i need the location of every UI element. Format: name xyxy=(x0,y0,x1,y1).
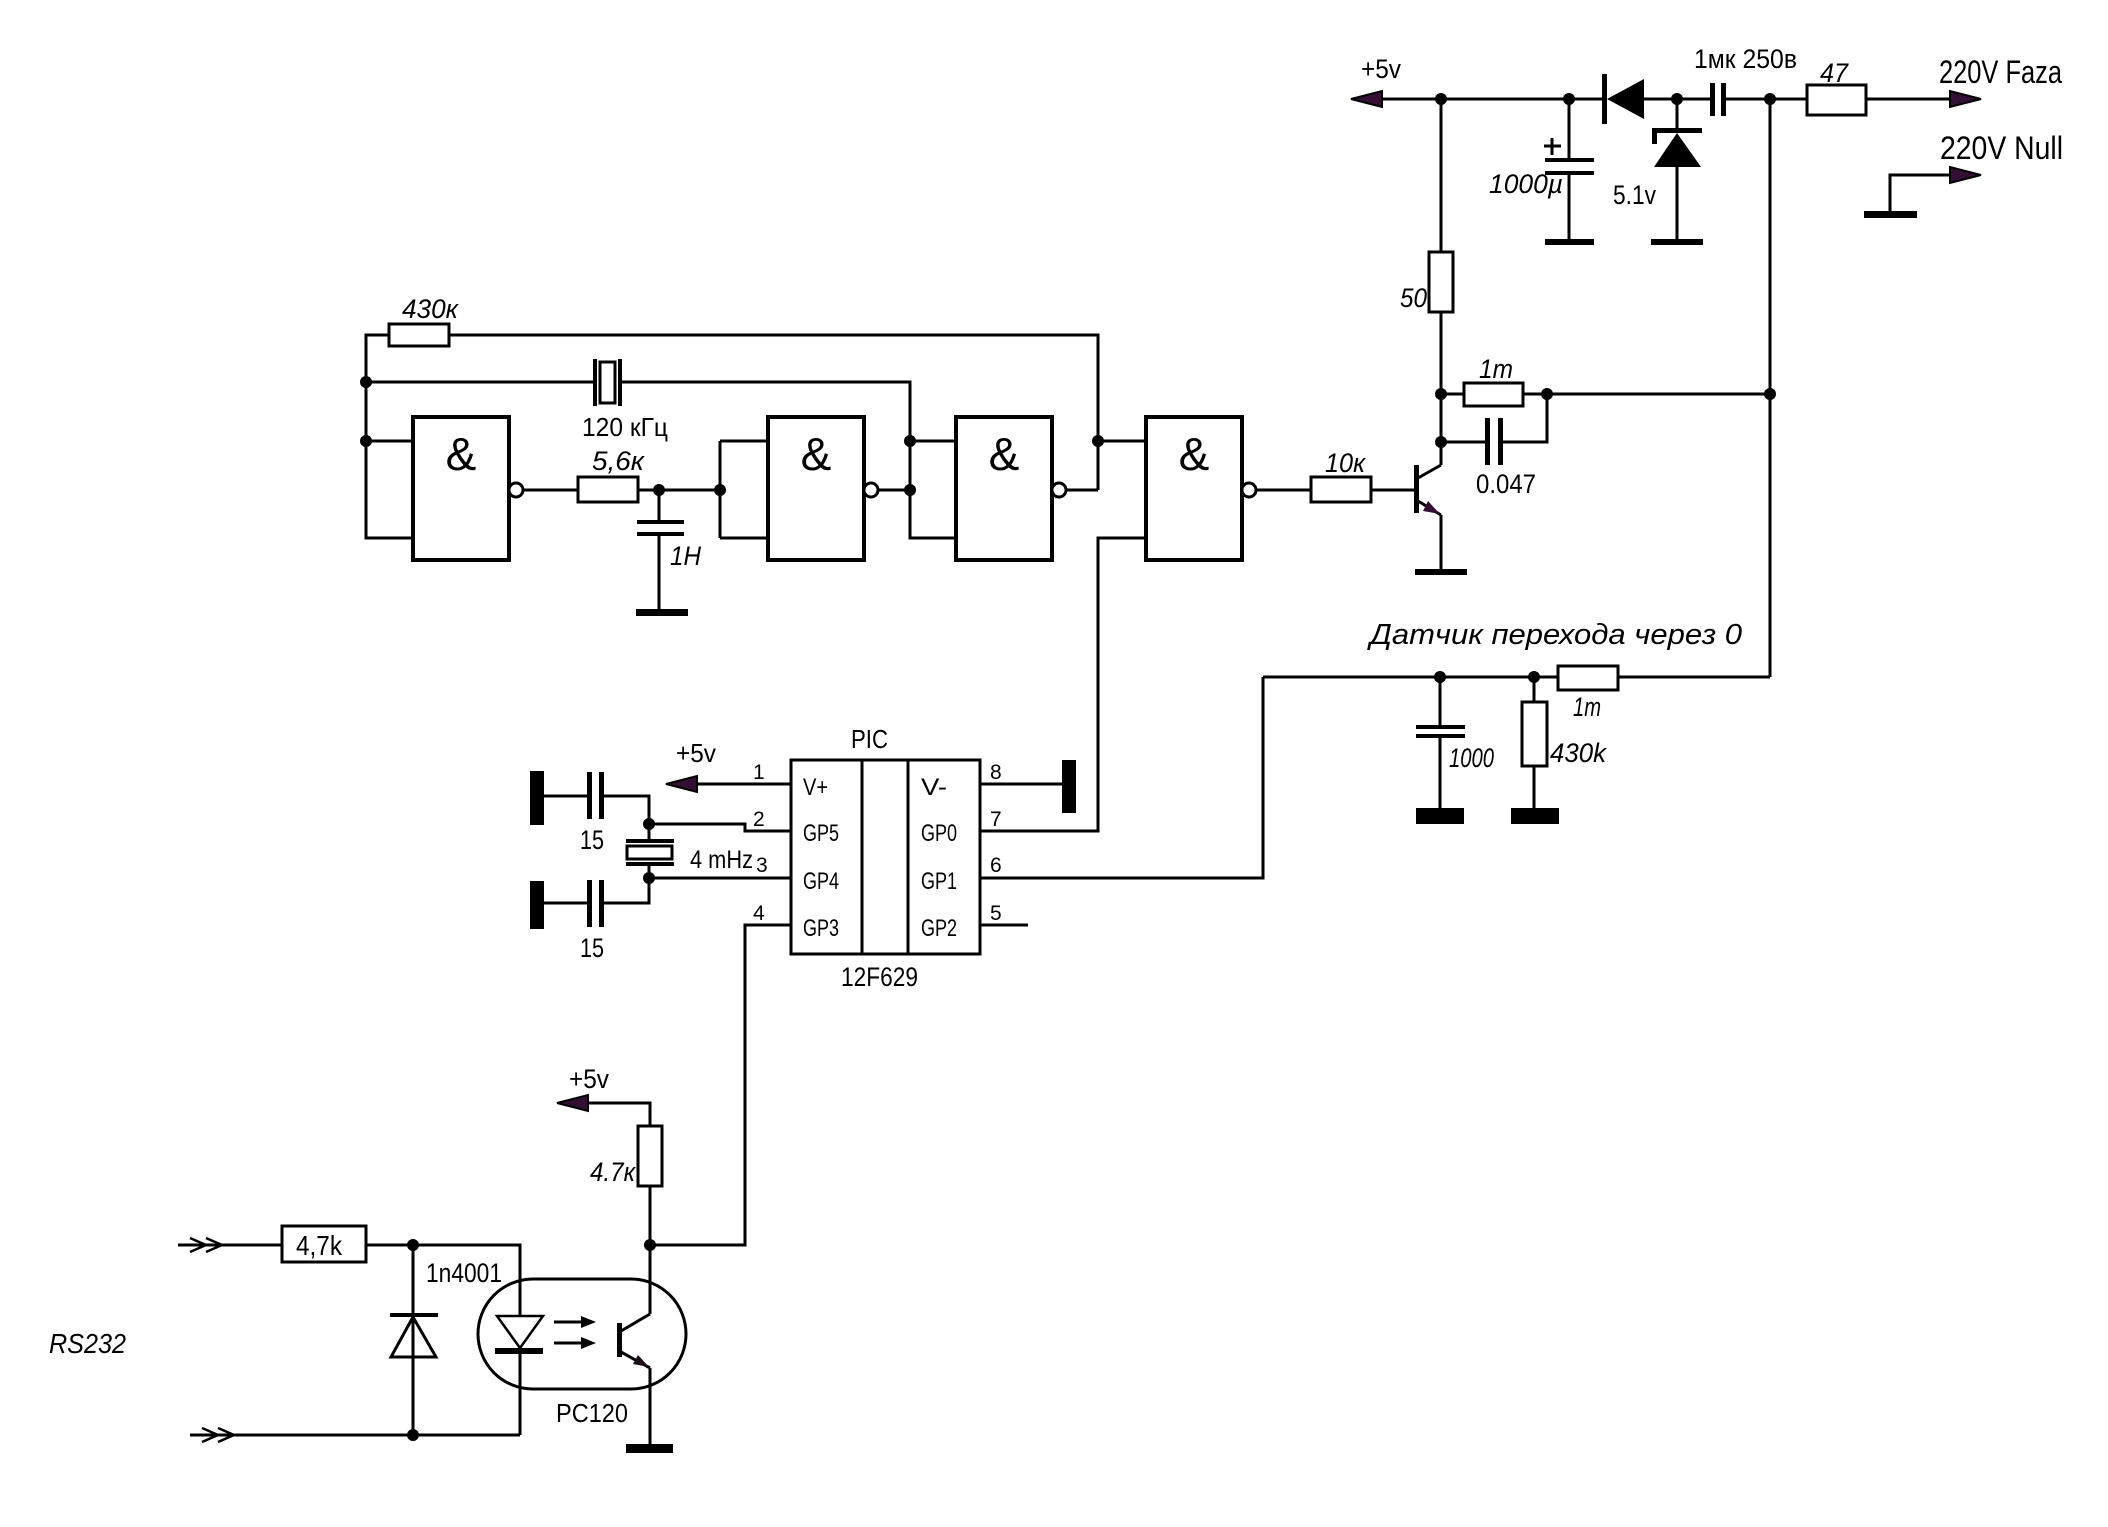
NAND gate DD1.4 xyxy=(1146,417,1256,560)
wire resistor 50 to node B1 xyxy=(1440,312,1443,394)
wire diode D1 to capacitor C1 xyxy=(1644,98,1711,101)
svg-text:V-: V- xyxy=(921,774,947,801)
wire node G1 to LED anode xyxy=(413,1245,520,1316)
RS232 input chevrons (bottom) xyxy=(202,1428,234,1442)
net +5v label (top) xyxy=(1361,54,1401,84)
ground (220V Null) xyxy=(1864,211,1917,218)
node B1 xyxy=(1435,388,1447,400)
node F1 xyxy=(644,1239,656,1251)
pin number 5 xyxy=(990,902,1002,925)
wire node A2 to capacitor C2 xyxy=(1568,99,1571,159)
wire node A4 to resistor 47 xyxy=(1770,98,1807,101)
wire +5v arrow to node xyxy=(1382,98,1441,101)
zener VD1 value label 5.1v xyxy=(1613,180,1656,210)
wire pin1 V+ xyxy=(697,783,791,786)
svg-text:&: & xyxy=(801,428,832,480)
wire resistor 47 to Faza arrow xyxy=(1866,98,1951,101)
svg-text:47: 47 xyxy=(1820,58,1849,88)
wire gate2 input branch xyxy=(720,441,768,538)
node A3 xyxy=(1671,93,1683,105)
svg-text:V+: V+ xyxy=(803,774,828,801)
capacitor 1000 xyxy=(1416,677,1494,808)
svg-text:+5v: +5v xyxy=(676,738,716,768)
svg-text:1m: 1m xyxy=(1573,692,1601,722)
capacitor C2 (1000µ electrolytic) xyxy=(1545,158,1594,175)
resistor 430k (sensor) xyxy=(1522,677,1607,808)
optocoupler LED xyxy=(495,1316,543,1354)
wire node A3 to zener VD1 xyxy=(1676,99,1679,130)
wire feedback top left xyxy=(366,335,413,538)
svg-text:120 кГц: 120 кГц xyxy=(582,412,668,442)
svg-text:10к: 10к xyxy=(1325,448,1366,478)
wire LED cathode to bottom rail xyxy=(519,1353,522,1435)
pin number 6 xyxy=(990,854,1002,877)
wire capacitor C2 to ground xyxy=(1568,175,1571,239)
svg-text:50: 50 xyxy=(1400,283,1427,313)
transistor Q1 xyxy=(1414,442,1441,569)
resistor 1m (top) xyxy=(1441,354,1547,406)
svg-text:1: 1 xyxy=(753,761,765,784)
wire RS232 bottom input rail xyxy=(190,1434,520,1437)
capacitor C1 xyxy=(1710,83,1726,116)
svg-text:2: 2 xyxy=(753,808,765,831)
svg-text:&: & xyxy=(989,428,1020,480)
resistor 1m (sensor) xyxy=(1558,666,1618,722)
svg-text:+5v: +5v xyxy=(569,1064,609,1094)
svg-text:220V Faza: 220V Faza xyxy=(1939,54,2062,90)
wire resistor 4.7к to node F1 xyxy=(649,1186,652,1245)
terminal bar (cap 15 top) xyxy=(530,771,544,825)
resistor 430к (feedback) xyxy=(389,294,459,346)
pin number 4 xyxy=(753,902,765,925)
IC U1 PIC 12F629 body xyxy=(791,724,980,992)
label Датчик перехода через 0 xyxy=(1367,619,1742,651)
IC U1 pin label GP0 xyxy=(921,820,957,847)
resistor 4.7к xyxy=(590,1126,662,1187)
node B4 xyxy=(1435,436,1447,448)
svg-text:&: & xyxy=(1179,428,1210,480)
svg-text:4,7k: 4,7k xyxy=(296,1230,343,1261)
wire node A1 to resistor 50 xyxy=(1440,99,1443,252)
wire node B2 to node B3 xyxy=(1547,393,1770,396)
wire right vertical rail (node A4 to sensor rail) xyxy=(1769,99,1772,677)
ground (capacitor C2) xyxy=(1545,239,1594,245)
diode VD2 1n4001 xyxy=(390,1313,438,1357)
node A4 xyxy=(1764,93,1776,105)
node C7 xyxy=(1092,435,1104,447)
wire feedback top right xyxy=(449,335,1098,490)
svg-text:5: 5 xyxy=(990,902,1002,925)
optocoupler phototransistor xyxy=(617,1245,650,1444)
capacitor 15 (top) xyxy=(544,772,649,855)
IC U1 pin label GP1 xyxy=(921,868,957,895)
wire sensor rail left xyxy=(1263,676,1558,679)
svg-text:1m: 1m xyxy=(1479,354,1513,384)
svg-text:220V Null: 220V Null xyxy=(1940,130,2063,166)
IC U1 pin label GP2 xyxy=(921,915,957,942)
resistor 10к xyxy=(1311,448,1371,502)
crystal ZQ1 120 кГц xyxy=(582,359,668,442)
node C4 xyxy=(714,484,726,496)
wire gate1 output to resistor 5,6к xyxy=(523,489,578,492)
svg-text:3: 3 xyxy=(756,854,768,877)
svg-text:GP3: GP3 xyxy=(803,915,839,942)
node C2 xyxy=(360,435,372,447)
optocoupler light arrows xyxy=(554,1316,596,1349)
svg-text:1мк 250в: 1мк 250в xyxy=(1694,44,1797,74)
IC U1 pin label GP4 xyxy=(803,868,839,895)
wire gate2 output to node C5 xyxy=(878,489,910,492)
wire gate3 output to vertical xyxy=(1066,489,1098,492)
wire node G1 to diode VD2 xyxy=(412,1245,415,1435)
NAND gate DD1.3 xyxy=(956,417,1066,560)
wire gate1 top input xyxy=(366,440,413,443)
pin number 8 xyxy=(990,761,1002,784)
capacitor C2 polarity plus xyxy=(1544,138,1561,155)
svg-text:1n4001: 1n4001 xyxy=(426,1258,502,1288)
wire zener VD1 to ground xyxy=(1676,167,1679,239)
svg-text:7: 7 xyxy=(990,808,1002,831)
wire pin5 GP2 stub xyxy=(980,924,1028,927)
svg-text:+5v: +5v xyxy=(1361,54,1401,84)
svg-text:4 mHz: 4 mHz xyxy=(690,846,753,874)
wire resistor 1m (sensor) to right rail xyxy=(1618,676,1770,679)
node C5 xyxy=(904,484,916,496)
wire capacitor C1 to node A4 xyxy=(1726,98,1770,101)
svg-text:1H: 1H xyxy=(670,541,701,571)
wire resistor 4,7k to node G1 xyxy=(366,1244,413,1247)
terminal bar (cap 15 bottom) xyxy=(530,881,544,929)
net +5v label (bottom) xyxy=(569,1064,609,1094)
wire node A2 to diode D1 xyxy=(1569,98,1604,101)
svg-text:PIC: PIC xyxy=(851,724,888,754)
svg-text:GP2: GP2 xyxy=(921,915,957,942)
node G1 xyxy=(407,1239,419,1251)
node E1 xyxy=(643,818,655,830)
resistor 50 xyxy=(1400,252,1453,313)
svg-text:5.1v: 5.1v xyxy=(1613,180,1656,210)
RS232 input chevrons (top) xyxy=(190,1238,222,1252)
wire gate3 top input xyxy=(910,440,956,443)
wire pin6 GP1 to sensor rail xyxy=(980,677,1263,878)
svg-text:15: 15 xyxy=(580,933,604,963)
pin number 3 xyxy=(756,854,768,877)
ground (capacitor 1000) xyxy=(1416,808,1464,824)
wire pin8 V- xyxy=(980,783,1062,786)
wire node B1 to node B4 xyxy=(1440,394,1443,442)
wire pin4 GP3 to optocoupler node xyxy=(650,925,791,1245)
wire resistor 10к to transistor base xyxy=(1371,489,1414,492)
terminal bar (pin8) xyxy=(1062,760,1076,813)
ground (resistor 430k) xyxy=(1511,808,1559,824)
svg-text:15: 15 xyxy=(580,825,604,855)
svg-text:4.7к: 4.7к xyxy=(590,1157,636,1187)
net 220V Null label xyxy=(1940,130,2063,166)
pin number 1 xyxy=(753,761,765,784)
net 220V Null arrow xyxy=(1950,167,1981,183)
node D2 xyxy=(1528,671,1540,683)
wire +5v arrow to resistor 4.7к xyxy=(588,1103,650,1126)
zener VD1 5.1v xyxy=(1652,128,1702,167)
NAND gate DD1.2 xyxy=(768,417,878,560)
wire node A1 to node A2 xyxy=(1441,98,1569,101)
wire 220V Null to ground xyxy=(1890,175,1950,211)
svg-text:RS232: RS232 xyxy=(49,1328,126,1359)
svg-text:GP0: GP0 xyxy=(921,820,957,847)
node C1 xyxy=(360,376,372,388)
svg-text:GP1: GP1 xyxy=(921,868,957,895)
diode D1 xyxy=(1602,74,1644,124)
svg-text:GP4: GP4 xyxy=(803,868,839,895)
svg-text:6: 6 xyxy=(990,854,1002,877)
svg-text:430к: 430к xyxy=(402,294,459,324)
svg-text:Датчик перехода через 0: Датчик перехода через 0 xyxy=(1367,619,1742,651)
ground (zener VD1) xyxy=(1651,239,1703,245)
resistor 5,6к xyxy=(578,446,645,502)
resistor 4,7k xyxy=(282,1226,366,1262)
node E2 xyxy=(643,872,655,884)
optocoupler label PC120 xyxy=(556,1398,628,1428)
svg-text:GP5: GP5 xyxy=(803,820,839,847)
svg-text:PC120: PC120 xyxy=(556,1398,628,1428)
node A2 xyxy=(1563,93,1575,105)
optocoupler U2 PC120 body xyxy=(478,1279,686,1389)
diode 1n4001 label xyxy=(426,1258,502,1288)
NAND gate DD1.1 xyxy=(413,417,523,560)
net +5v arrow (bottom) xyxy=(557,1095,588,1111)
capacitor C1 value label 1мк 250в xyxy=(1694,44,1797,74)
ground (capacitor 1H) xyxy=(636,609,688,616)
svg-text:0.047: 0.047 xyxy=(1476,469,1536,499)
capacitor C2 value label 1000µ xyxy=(1489,169,1563,199)
node G2 xyxy=(407,1429,419,1441)
crystal ZQ2 4 mHz xyxy=(626,824,674,878)
capacitor 15 (bottom) xyxy=(544,878,649,963)
wire crystal ZQ1 right xyxy=(622,382,956,538)
net +5v label (PIC) xyxy=(676,738,716,768)
IC U1 pin label GP5 xyxy=(803,820,839,847)
svg-text:8: 8 xyxy=(990,761,1002,784)
label 4 mHz xyxy=(690,846,753,874)
node D1 xyxy=(1434,671,1446,683)
wire RS232 top input to resistor 4,7k xyxy=(178,1244,282,1247)
node A1 xyxy=(1435,93,1447,105)
wire gate4 bottom input to PIC pin7 xyxy=(980,538,1146,831)
IC U1 pin label GP3 xyxy=(803,915,839,942)
wire pin3 GP4 xyxy=(649,877,791,880)
svg-text:1000: 1000 xyxy=(1449,743,1494,773)
node C6 xyxy=(904,435,916,447)
net 220V Faza arrow xyxy=(1950,91,1981,107)
ground (transistor Q1 emitter) xyxy=(1415,569,1467,575)
pin number 7 xyxy=(990,808,1002,831)
IC U1 pin label V- xyxy=(921,774,947,801)
node B3 xyxy=(1764,388,1776,400)
svg-text:430k: 430k xyxy=(1550,738,1607,768)
wire gate4 top input xyxy=(1098,440,1146,443)
net 220V Faza label xyxy=(1939,54,2062,90)
resistor 47 xyxy=(1807,58,1866,115)
svg-text:4: 4 xyxy=(753,902,765,925)
svg-text:12F629: 12F629 xyxy=(841,962,918,992)
net +5v arrow (top) xyxy=(1351,91,1382,107)
IC U1 pin label V+ xyxy=(803,774,828,801)
capacitor 1H xyxy=(637,490,701,609)
node B2 xyxy=(1541,388,1553,400)
svg-text:&: & xyxy=(446,428,477,480)
RS232 label xyxy=(49,1328,126,1359)
wire crystal ZQ1 left xyxy=(366,381,594,384)
ground (optocoupler emitter) xyxy=(626,1444,673,1453)
wire gate4 output to resistor 10к xyxy=(1256,489,1311,492)
wire resistor 5,6к to gate2 xyxy=(638,489,720,492)
capacitor 0.047 xyxy=(1441,394,1547,499)
node C3 xyxy=(653,484,665,496)
svg-text:5,6к: 5,6к xyxy=(592,446,645,476)
pin number 2 xyxy=(753,808,765,831)
net +5v arrow (PIC pin1) xyxy=(666,776,697,792)
wire pin2 GP5 xyxy=(649,824,791,831)
